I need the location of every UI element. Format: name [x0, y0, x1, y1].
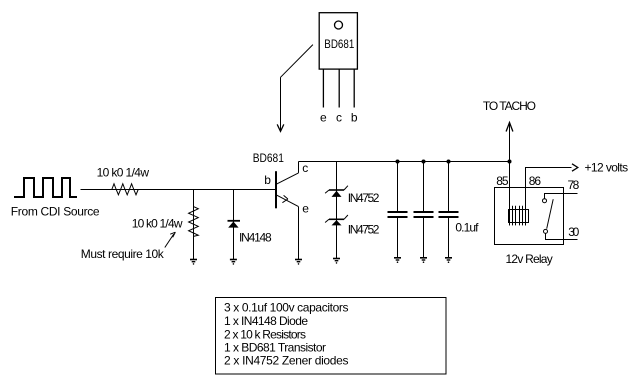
- relay coil box: [509, 210, 529, 223]
- resistor R1 10k horizontal zigzag: [112, 184, 138, 195]
- BD681 package pin c lead: [338, 69, 340, 107]
- relay switch arm: [547, 199, 554, 229]
- svg-text:3 x 0.1uf 100v capacitors: 3 x 0.1uf 100v capacitors: [224, 300, 349, 314]
- transistor Q1 emitter diagonal: [277, 195, 299, 206]
- transistor Q1 collector stub up: [298, 162, 300, 173]
- wire: vertical branch for R2: [193, 190, 195, 260]
- svg-text:2 x IN4752 Zener diodes: 2 x IN4752 Zener diodes: [224, 354, 349, 368]
- zener Z1 left tick: [325, 190, 329, 193]
- svg-text:b: b: [351, 111, 358, 125]
- zener Z1 right tick: [344, 186, 348, 190]
- transistor Q1 base bar: [275, 171, 277, 208]
- svg-text:BD681: BD681: [253, 151, 284, 165]
- svg-text:85: 85: [496, 174, 509, 188]
- capacitor C1 plates: [388, 211, 408, 213]
- relay contact 78 wire: [545, 194, 578, 199]
- svg-text:From CDI Source: From CDI Source: [11, 204, 100, 218]
- svg-text:c: c: [302, 161, 308, 175]
- svg-text:1 x BD681 Transistor: 1 x BD681 Transistor: [224, 340, 326, 354]
- transistor Q1 collector diagonal: [277, 173, 299, 184]
- capacitor C3 plates: [439, 211, 459, 213]
- ground at C3: [445, 258, 452, 263]
- svg-text:Must require 10k: Must require 10k: [81, 247, 165, 261]
- relay contact bottom circle: [544, 229, 548, 233]
- BD681 package mounting hole: [335, 21, 343, 29]
- svg-text:b: b: [264, 173, 271, 187]
- square wave input symbol: [14, 178, 77, 197]
- wire: relay coil terminal 86 up and right to +12v: [526, 168, 572, 226]
- zener Z2 IN4752 bar: [329, 218, 344, 220]
- relay box outline: [495, 188, 564, 245]
- BD681 package pin b lead: [353, 69, 355, 107]
- ground at emitter: [295, 260, 302, 265]
- relay coil hatch lines: [510, 206, 526, 226]
- svg-text:IN4148: IN4148: [239, 230, 272, 244]
- zener Z2 right tick: [344, 215, 348, 219]
- svg-text:0.1uf: 0.1uf: [455, 221, 479, 235]
- capacitor C2 top wire: [423, 162, 425, 212]
- diode D1 IN4148 cathode bar: [228, 220, 241, 222]
- junction node dot C1: [396, 160, 400, 164]
- svg-text:12v Relay: 12v Relay: [506, 252, 553, 266]
- ground at C1: [394, 258, 401, 263]
- svg-text:IN4752: IN4752: [348, 222, 380, 236]
- svg-text:+12 volts: +12 volts: [585, 161, 629, 175]
- wire: vertical branch for D1: [233, 190, 235, 260]
- note arrow shaft: [165, 234, 174, 248]
- svg-text:e: e: [302, 202, 309, 216]
- pointer arrow from package to transistor: diagonal segment: [281, 45, 313, 78]
- svg-text:78: 78: [568, 178, 580, 192]
- svg-text:10 k0 1/4w: 10 k0 1/4w: [132, 217, 183, 231]
- TO TACHO arrow shaft: [509, 123, 511, 162]
- pointer arrow vertical shaft: [280, 77, 282, 130]
- BD681 package U1 outline: [319, 13, 357, 69]
- ground at zeners: [333, 259, 340, 264]
- capacitor C1 top wire: [397, 162, 399, 212]
- ground at C2: [420, 258, 427, 263]
- BD681 package pin e lead: [322, 69, 324, 107]
- wire: zener branch vertical: [336, 162, 338, 259]
- parts list box: [216, 298, 447, 375]
- zener Z2 triangle: [332, 220, 342, 225]
- junction node dot C3: [447, 160, 451, 164]
- zener Z2 left tick: [325, 219, 329, 222]
- svg-text:BD681: BD681: [324, 37, 354, 51]
- ground at R2: [190, 260, 197, 265]
- capacitor C3 top wire: [448, 162, 450, 212]
- transistor Q1 emitter arrowhead: [282, 195, 288, 202]
- zener Z1 triangle: [332, 191, 342, 197]
- wire: top rail collector to relay: [299, 161, 510, 163]
- capacitor C1 bottom wire: [397, 218, 399, 257]
- capacitor C2 plates: [414, 211, 434, 213]
- +12 volts arrowhead: [572, 164, 578, 171]
- junction node dot C2: [422, 160, 426, 164]
- resistor R2 10k vertical zigzag: [189, 207, 199, 237]
- junction node dot TO TACHO: [508, 160, 512, 164]
- pointer arrowhead down: [277, 124, 284, 131]
- wire: emitter down to ground: [298, 207, 300, 259]
- svg-text:TO TACHO: TO TACHO: [483, 99, 536, 113]
- capacitor C3 bottom wire: [448, 218, 450, 257]
- svg-text:86: 86: [529, 174, 542, 188]
- svg-text:1 x IN4148 Diode: 1 x IN4148 Diode: [224, 314, 308, 328]
- note arrowhead: [170, 232, 175, 237]
- capacitor C2 bottom wire: [423, 218, 425, 257]
- wire from CDI source to transistor base: [81, 189, 277, 191]
- wire: relay coil terminal 85: [509, 162, 511, 226]
- ground at D1: [230, 260, 237, 265]
- diode D1 IN4148 triangle: [228, 222, 238, 228]
- svg-text:c: c: [336, 111, 342, 125]
- svg-text:10 k0 1/4w: 10 k0 1/4w: [97, 165, 150, 179]
- TO TACHO arrowhead up: [506, 123, 513, 132]
- zener Z1 IN4752 bar: [329, 189, 344, 191]
- svg-text:e: e: [320, 111, 327, 125]
- svg-text:30: 30: [568, 225, 579, 239]
- svg-text:IN4752: IN4752: [348, 191, 380, 205]
- relay contact 30 wire: [546, 234, 578, 240]
- relay contact top circle: [543, 199, 547, 203]
